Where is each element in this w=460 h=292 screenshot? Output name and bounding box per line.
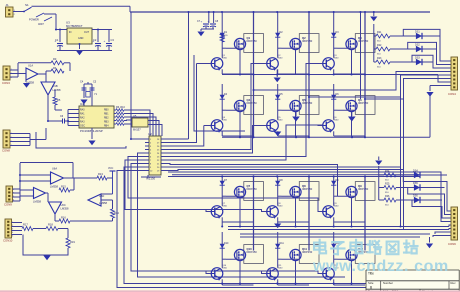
svg-text:U1B: U1B: [53, 84, 58, 88]
wire Q11 source tie: [295, 284, 297, 286]
title block frame: [366, 270, 459, 292]
diode D8: [275, 179, 280, 187]
wire drain rail column C low: [364, 177, 366, 251]
transistor driver for Q8: [267, 206, 279, 219]
wire U6A out: [64, 177, 98, 179]
svg-text:IRFP450: IRFP450: [302, 187, 313, 191]
wire DS6 to CON8: [412, 200, 451, 218]
svg-text:R14: R14: [114, 211, 119, 215]
svg-text:8050: 8050: [334, 58, 340, 60]
wire base Q2 driver: [262, 63, 267, 65]
wire C7 top: [208, 12, 210, 23]
wire bootstrap line A: [165, 12, 189, 139]
mosfet Q8 symbol: [290, 186, 301, 197]
wire D5 to Q5 driver collector: [277, 101, 279, 120]
label D6: [336, 93, 340, 96]
wire C2 top: [97, 30, 99, 43]
wire U5 out A to U2 top: [148, 121, 159, 137]
wire Q10 source tie: [239, 284, 241, 286]
label driver Q9: [334, 203, 340, 208]
wire D2 to Q2 driver collector: [277, 39, 279, 58]
label U6B: [33, 200, 41, 204]
svg-text:VCC: VCC: [108, 167, 113, 170]
op-amp U6A: [51, 172, 64, 184]
svg-text:Q11: Q11: [302, 247, 307, 251]
wire DS1 to CON7: [403, 29, 451, 61]
capacitor C6: [60, 115, 65, 124]
svg-text:6N137: 6N137: [133, 128, 141, 132]
diode D2: [275, 31, 280, 39]
wire Q9 gate: [338, 195, 356, 197]
wire C4 gnd: [83, 95, 85, 98]
wire R18 to R19: [58, 228, 68, 230]
wire corner to +V rail: [129, 6, 131, 12]
wire Q8 source drop: [295, 198, 297, 222]
wire Q4 gate: [226, 109, 244, 111]
svg-text:R25: R25: [385, 183, 390, 186]
wire U4 left pins: [68, 110, 79, 126]
label driver Q3: [334, 55, 340, 60]
wire U1A out: [38, 71, 51, 82]
resistor R18: [46, 227, 58, 231]
wire gate node: [334, 258, 338, 260]
wire R3 to R4: [64, 63, 70, 71]
svg-text:R26: R26: [385, 195, 390, 198]
svg-text:Size: Size: [368, 281, 374, 285]
wire Q2 driver emitter ext: [276, 70, 278, 78]
diode D3: [331, 31, 336, 39]
label R14: [114, 211, 119, 215]
wire phase to D4: [221, 84, 223, 93]
mosfet Q5 symbol: [290, 100, 301, 111]
wire bottom bridge rail upper: [172, 174, 420, 176]
wire drain rail column B low: [308, 177, 310, 251]
switch S2 aux: [29, 13, 44, 22]
page bottom edge: [0, 290, 460, 292]
label CON2: [2, 81, 10, 85]
wire diode bank 1 feed: [373, 24, 375, 62]
svg-text:8050: 8050: [222, 120, 228, 122]
label R6-R10: [116, 106, 125, 109]
svg-text:IN: IN: [69, 31, 72, 34]
wire Q5 source gnd stub: [295, 112, 297, 117]
label R4: [53, 66, 57, 70]
svg-text:Q4: Q4: [247, 98, 251, 102]
ground Q5 source: [292, 117, 300, 122]
wire Q11 gate: [282, 258, 300, 260]
wire base Q4 driver: [206, 125, 211, 127]
resistor R26: [379, 195, 396, 207]
mcu U4 body: [79, 106, 114, 128]
wire R16 to R14: [70, 218, 113, 221]
label driver Q8: [278, 203, 284, 208]
wire D11 to Q11 driver collector: [277, 250, 279, 268]
crystal Y1: [86, 92, 90, 98]
wire Q9 source tie: [334, 221, 365, 223]
wire U6B inputs: [20, 190, 34, 196]
svg-text:R19: R19: [70, 240, 75, 244]
label R3: [53, 57, 57, 61]
diode D11: [275, 242, 280, 250]
wire rail to D9: [333, 177, 335, 180]
svg-text:CON3: CON3: [2, 81, 10, 85]
mosfet Q11 symbol: [290, 249, 301, 260]
svg-text:RB0: RB0: [104, 110, 109, 112]
wire to D11: [277, 232, 279, 242]
svg-text:DS1: DS1: [415, 31, 420, 34]
svg-text:DS5: DS5: [413, 182, 418, 185]
svg-text:RB4: RB4: [104, 126, 109, 128]
svg-text:IRFP450: IRFP450: [247, 250, 258, 254]
resistor R25: [379, 183, 396, 195]
transistor driver for Q7: [211, 206, 223, 219]
wire U2 LO1 riser: [165, 126, 204, 147]
svg-text:8050: 8050: [334, 206, 340, 208]
svg-text:8050: 8050: [334, 120, 340, 122]
svg-text:R5: R5: [57, 98, 61, 102]
led DS2: [390, 44, 426, 53]
wire Q11 driver emitter drop: [277, 279, 279, 285]
capacitor C2 100uF: [93, 39, 102, 46]
label CON5: [4, 203, 12, 207]
label C1: [55, 38, 59, 42]
connector CON5 hall input: [6, 186, 14, 202]
wire gate node: [222, 258, 226, 260]
wire phase to D5: [277, 84, 279, 93]
wire top-left rail: [32, 5, 131, 7]
wire base Q1 driver: [206, 63, 211, 65]
power VCC bar: [110, 171, 116, 194]
svg-text:U5: U5: [133, 114, 137, 118]
ground top rail: [370, 17, 377, 22]
svg-text:4007: 4007: [38, 22, 44, 26]
connector CON6 speed set: [5, 219, 13, 238]
wire gate node: [278, 47, 282, 49]
wire U5 out B to U2 top: [148, 125, 162, 137]
regulator U3 body: [67, 28, 92, 44]
watermark site name: [314, 240, 417, 254]
transistor driver for Q9: [323, 206, 335, 219]
svg-text:8050: 8050: [222, 58, 228, 60]
wire Q9 source: [351, 222, 353, 227]
svg-text:8050: 8050: [278, 268, 284, 270]
wire R13 to VCC rail: [107, 177, 113, 179]
svg-text:PIC16F873-20/SP: PIC16F873-20/SP: [80, 129, 103, 133]
label S1: [25, 3, 29, 7]
wire Q11 source tie: [278, 284, 309, 286]
wire R15 net: [70, 178, 74, 190]
transistor driver for Q10: [211, 268, 223, 281]
wire Q10 source drop: [239, 261, 241, 285]
svg-text:MC78M05CT: MC78M05CT: [66, 24, 83, 28]
svg-text:Q7: Q7: [247, 184, 251, 188]
wire Q11 source drop: [295, 261, 297, 285]
label CON6: [3, 239, 13, 243]
label U1A: [26, 64, 34, 85]
capacitor C8 bulk: [208, 20, 219, 27]
wire Q5 source drop: [295, 112, 297, 136]
wire Q4 driver emitter drop: [221, 131, 223, 136]
wire U5 inputs: [126, 120, 132, 124]
label C2: [93, 38, 97, 42]
wire base Q6 driver: [318, 125, 323, 127]
wire U4 gnd: [91, 128, 93, 139]
ground at U1A: [23, 83, 30, 88]
svg-text:R13: R13: [98, 172, 103, 176]
wire gate node: [278, 195, 282, 197]
wire Q8 driver emitter: [277, 222, 279, 227]
svg-text:OUT: OUT: [84, 31, 90, 34]
wire base Q5 driver: [262, 125, 267, 127]
svg-text:OSC: OSC: [80, 126, 85, 128]
svg-text:8050: 8050: [222, 268, 228, 270]
wire gate node: [334, 109, 338, 111]
wire Q3 source drop: [351, 50, 353, 74]
mosfet Q7 cell: [244, 182, 264, 201]
svg-text:IRFP450: IRFP450: [358, 39, 369, 43]
wire bottom loop: [23, 235, 68, 256]
svg-text:GND: GND: [78, 37, 84, 40]
wire S2 to U3 input: [44, 13, 56, 15]
transistor driver for Q1: [211, 58, 223, 71]
svg-text:U2: U2: [148, 132, 152, 136]
resistor R4: [51, 69, 64, 73]
svg-text:IRFP450: IRFP450: [302, 101, 313, 105]
diode D1: [220, 31, 225, 39]
wire C8 top: [213, 12, 215, 23]
svg-text:Q2: Q2: [302, 36, 306, 40]
wire base Q12 driver: [318, 273, 323, 275]
mosfet Q6 symbol: [346, 100, 357, 111]
wire CON8 pin6: [449, 229, 451, 230]
svg-text:8050: 8050: [222, 206, 228, 208]
wire +V to D1: [221, 12, 223, 31]
wire return rail to CON7 gnd: [429, 93, 431, 137]
ground at CON7: [426, 92, 433, 97]
mosfet Q12 cell: [355, 245, 375, 264]
wire Q7 gate: [226, 195, 244, 197]
wire CON8 pin5: [449, 225, 451, 227]
wire D4 to Q4 driver collector: [221, 101, 223, 120]
wire C3 top: [108, 30, 110, 43]
led DS5: [396, 182, 424, 191]
wire CON6 pins: [12, 223, 23, 235]
svg-text:8050: 8050: [278, 120, 284, 122]
wire phase C drop: [403, 99, 405, 230]
label CON7: [448, 92, 456, 96]
wire into U6D: [101, 194, 113, 200]
wire C1 bottom: [59, 46, 61, 51]
wire U2 to Q8 driver base: [125, 160, 267, 212]
wire Q7 source tie: [222, 221, 253, 223]
labels xtal: [80, 81, 98, 97]
wire VCC feed to U2: [130, 12, 132, 139]
svg-text:+: +: [201, 20, 203, 24]
resistor R17: [22, 227, 33, 231]
resistor R16: [59, 219, 70, 223]
wire U2 to Q9 driver base: [128, 157, 323, 212]
wire base Q9 driver: [318, 211, 323, 213]
wire D7 to Q7 driver collector: [221, 187, 223, 206]
wire drain rail column C: [364, 12, 366, 137]
wire Q6 gate: [338, 109, 356, 111]
svg-text:IRFP450: IRFP450: [302, 250, 313, 254]
wire U2 pin stubs: [145, 139, 165, 171]
wire Q12 source drop: [351, 261, 353, 285]
svg-text:C1: C1: [55, 38, 59, 42]
svg-text:+: +: [208, 20, 210, 24]
svg-text:Q8: Q8: [302, 184, 306, 188]
wire Q12 source tie: [334, 284, 365, 286]
svg-text:www.cndzz. com: www.cndzz. com: [312, 258, 449, 275]
wire U6D to R14: [112, 200, 114, 209]
wire CON7 pin8: [430, 85, 451, 87]
watermark url: [312, 258, 449, 275]
svg-text:R17: R17: [23, 223, 28, 227]
wire Q5 gate: [282, 109, 300, 111]
label D12: [336, 242, 341, 245]
svg-text:CON6: CON6: [448, 242, 456, 246]
ground Q6 source: [348, 117, 356, 122]
svg-text:RB1: RB1: [104, 114, 109, 116]
mosfet Q9 cell: [355, 182, 375, 201]
wire spare riser col C: [360, 12, 362, 99]
op-amp U6C: [49, 202, 62, 214]
led DS3: [390, 57, 426, 66]
connector CON8 aux: [451, 207, 458, 240]
op-amp U6D: [88, 194, 101, 206]
resistor R19: [66, 238, 70, 248]
wire Q12 gate: [338, 258, 356, 260]
mosfet Q6 cell: [355, 96, 375, 115]
wire branch Q7 driver base: [206, 210, 211, 212]
label U5: [133, 114, 141, 132]
resistor R14: [111, 209, 115, 218]
wire CON4 vertical tie: [29, 134, 31, 146]
label J1: [6, 3, 10, 7]
capacitor C1 330uF: [55, 39, 64, 46]
wire gate node: [334, 47, 338, 49]
wire U1B output down: [47, 95, 49, 121]
mosfet Q3 cell: [355, 34, 375, 53]
ground bank2: [375, 161, 382, 166]
wire to Q12 driver base: [300, 271, 323, 274]
mosfet Q3 symbol: [346, 38, 357, 49]
mosfet Q7 symbol: [234, 186, 245, 197]
label R17: [23, 223, 28, 227]
wire drain rail column A: [253, 12, 255, 137]
wire mid rail 2: [228, 229, 449, 231]
label VCC: [108, 167, 113, 170]
U3 pin names: [69, 31, 90, 40]
svg-text:8050: 8050: [278, 58, 284, 60]
svg-text:IRFP450: IRFP450: [358, 187, 369, 191]
svg-text:S1: S1: [25, 3, 29, 7]
svg-text:R3: R3: [53, 57, 57, 61]
svg-text:IRFP450: IRFP450: [358, 101, 369, 105]
wire gnd stub mid: [200, 29, 202, 31]
op-amp U1B: [41, 82, 55, 95]
wire D1 to Q1 driver collector: [221, 39, 223, 58]
resistor R24: [379, 170, 396, 182]
wire Q3 source tie: [334, 73, 365, 75]
wire Q7 driver emitter: [221, 222, 223, 227]
resistor R20: [220, 34, 228, 42]
wire to D12: [333, 232, 335, 242]
wire Q8 gate: [282, 195, 300, 197]
svg-text:R4: R4: [53, 66, 57, 70]
wire U6B out: [46, 193, 49, 202]
label R5: [57, 98, 61, 102]
svg-text:5: 5: [12, 236, 13, 238]
ground Q2 driver: [274, 78, 281, 83]
wire Q7 source drop: [239, 198, 241, 222]
wire +V to D3: [333, 12, 335, 31]
capacitor C3 0.1uF: [104, 39, 113, 46]
wire DS3 to CON7: [412, 55, 451, 68]
mosfet Q4 symbol: [234, 100, 245, 111]
mosfet Q2 symbol: [290, 38, 301, 49]
wire U2 HO2 to Q2 driver base: [165, 64, 267, 150]
label driver Q6: [334, 117, 340, 122]
wire phase B out: [309, 75, 451, 97]
ground bottom-left: [43, 256, 50, 261]
wire U2 bus rail 2: [165, 166, 401, 168]
label R18: [48, 223, 53, 227]
wire gate node: [334, 195, 338, 197]
wire D10 to Q10 driver collector: [221, 250, 223, 268]
wire Q3 driver emitter drop: [333, 69, 335, 74]
svg-text:RB2: RB2: [104, 118, 109, 120]
wire phase A out: [254, 72, 452, 91]
svg-text:CON4: CON4: [448, 92, 456, 96]
wire U4 left pin bus: [67, 110, 69, 126]
svg-text:CON9: CON9: [4, 203, 12, 207]
diode D10: [220, 242, 225, 250]
wire row1 return rail: [222, 74, 438, 76]
svg-text:4: 4: [12, 232, 13, 234]
wire U2 HO1 riser: [165, 64, 197, 143]
wire Q2 source tie: [278, 73, 309, 75]
label R15: [61, 185, 66, 189]
resistor R3: [51, 61, 64, 65]
wire Q1 source tie: [222, 73, 253, 75]
svg-text:U1A: U1A: [28, 64, 33, 68]
wire Q5 driver emitter drop: [277, 131, 279, 136]
svg-text:IRFP450: IRFP450: [302, 39, 313, 43]
capacitor C5 xtal: [90, 84, 95, 95]
svg-text:IRFP450: IRFP450: [247, 101, 258, 105]
wire Q3 gate: [338, 47, 356, 49]
label D1: [224, 31, 228, 34]
diode D5: [275, 93, 280, 101]
wire feedback top: [18, 62, 51, 64]
wire CON8 pin7: [435, 232, 451, 234]
wire CON8 pin8: [433, 236, 451, 238]
wire base Q7 driver: [206, 211, 211, 213]
wire xtal top tie: [84, 82, 92, 84]
connector CON7 display: [451, 57, 458, 90]
wire Q7 source: [239, 222, 241, 227]
svg-text:Q9: Q9: [358, 184, 362, 188]
wire Q10 driver emitter drop: [221, 279, 223, 285]
wire C2 bottom: [97, 46, 99, 51]
svg-text:RA2: RA2: [80, 117, 85, 120]
transistor driver for Q2: [267, 58, 279, 71]
wire Q1 gate: [226, 47, 244, 49]
wire Q1 source drop: [239, 50, 241, 74]
mosfet Q1 cell: [244, 34, 264, 53]
